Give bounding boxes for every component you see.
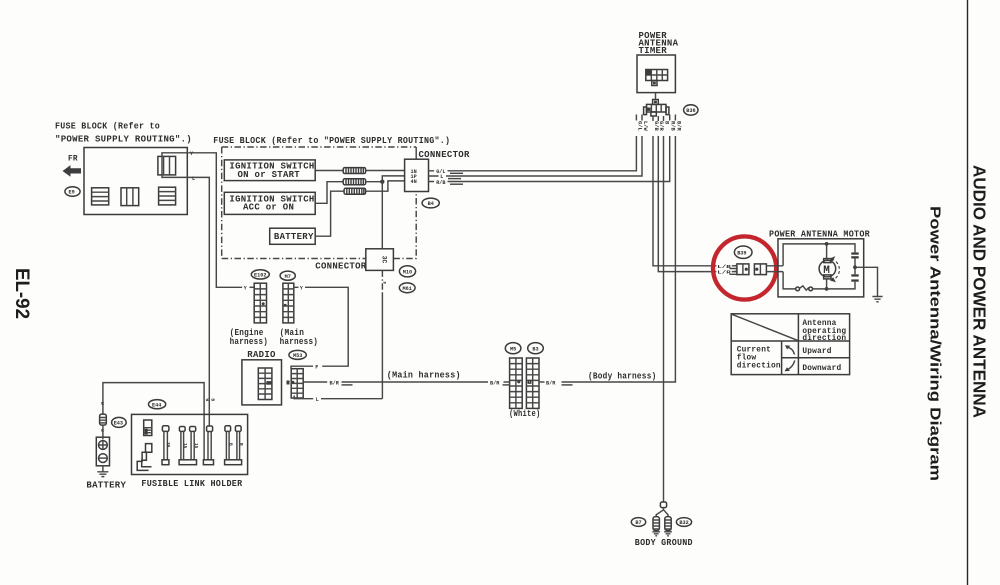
fuse block outline [84, 148, 187, 215]
wire between capacitors [854, 259, 856, 275]
motor harness connector B [754, 264, 766, 275]
fusible link holder box [132, 414, 248, 474]
svg-text:ON or START: ON or START [238, 170, 301, 180]
bracket around fuse F-d [162, 153, 190, 178]
fusible link 4a [225, 426, 233, 460]
ground symbol right [664, 531, 672, 536]
svg-text:L/B: L/B [717, 265, 731, 270]
wire Y from M7 to radio F [294, 287, 348, 366]
svg-text:E9: E9 [69, 190, 75, 196]
table vertical divider right [797, 314, 799, 375]
svg-text:B/R: B/R [330, 380, 340, 386]
timer box [637, 55, 675, 93]
connector oval B4 [422, 198, 439, 208]
FR arrow [63, 165, 82, 177]
connector oval M7 [280, 271, 295, 280]
svg-text:G/R: G/R [658, 121, 664, 131]
svg-text:E102: E102 [254, 273, 266, 279]
junction dot [380, 180, 384, 184]
direction table frame [731, 314, 849, 375]
svg-text:Y: Y [300, 286, 304, 292]
connector strip B3 [526, 358, 539, 408]
wire motor to bottom dot [826, 279, 828, 289]
fusible link A [343, 168, 365, 174]
svg-text:R/B: R/B [670, 121, 676, 131]
svg-text:CONNECTOR: CONNECTOR [315, 262, 366, 272]
svg-text:FUSE BLOCK (Refer to "POWER SU: FUSE BLOCK (Refer to "POWER SUPPLY ROUTI… [213, 136, 450, 146]
svg-text:Y: Y [244, 286, 248, 292]
svg-text:G/L: G/L [636, 121, 642, 131]
svg-text:"POWER SUPPLY ROUTING".): "POWER SUPPLY ROUTING".) [55, 135, 192, 145]
wire battery to fuse link C [315, 191, 344, 236]
svg-text:M53: M53 [293, 353, 302, 359]
table diagonal [732, 314, 798, 340]
svg-text:(Main harness): (Main harness) [387, 371, 461, 381]
ignition switch ON/START box [224, 160, 315, 181]
junction dot top [825, 242, 829, 246]
svg-text:POWER ANTENNA MOTOR: POWER ANTENNA MOTOR [769, 230, 870, 240]
motor harness connector A [735, 264, 749, 275]
radio internal connector strip [258, 368, 272, 400]
svg-text:15: 15 [182, 443, 187, 449]
radio box [242, 360, 282, 405]
svg-text:W: W [99, 402, 104, 405]
fusible link 2 base [179, 460, 196, 465]
wire stub into M5 [504, 381, 510, 383]
wire junction up to connector 1P [382, 176, 404, 182]
svg-text:R: R [238, 443, 243, 446]
stubs connector B to motor box [766, 266, 783, 272]
svg-text:FUSE BLOCK (Refer to: FUSE BLOCK (Refer to [55, 122, 160, 132]
svg-text:L/R: L/R [717, 271, 731, 276]
svg-text:30: 30 [165, 442, 170, 448]
motor circuit top wire [783, 244, 855, 266]
connector oval B32 [676, 518, 691, 527]
connector B4 box [405, 159, 429, 191]
connector oval B3 [528, 343, 544, 354]
svg-text:flow: flow [737, 355, 757, 363]
ground symbol left [652, 531, 660, 536]
motor M [819, 259, 836, 279]
junction dot bottom [825, 287, 829, 291]
wire 3C down to radio L [381, 293, 383, 399]
svg-text:B3: B3 [532, 346, 538, 352]
wire ignition ON to fuse link A [315, 170, 343, 172]
svg-text:G/B: G/B [653, 121, 659, 131]
connector oval E9 [65, 187, 80, 197]
svg-text:M: M [823, 265, 830, 277]
battery symbol [96, 437, 109, 466]
svg-text:R/B: R/B [436, 180, 445, 186]
svg-text:3C: 3C [381, 256, 388, 264]
fusible link 3 [203, 426, 213, 465]
svg-text:L/W: L/W [642, 121, 648, 131]
fuse F-b (striped vertical) [121, 188, 139, 206]
svg-text:4N: 4N [411, 179, 417, 185]
motor outer box [778, 239, 864, 297]
radio external connector strip M53 [291, 369, 303, 398]
fusible link 2a [179, 427, 187, 460]
svg-text:FUSIBLE LINK HOLDER: FUSIBLE LINK HOLDER [141, 479, 242, 489]
connector oval E44 [149, 400, 166, 409]
wire ignition ACC to fuse link B [315, 182, 343, 204]
svg-text:B39: B39 [737, 251, 746, 257]
body ground connector right [665, 517, 671, 531]
svg-text:Downward: Downward [802, 365, 841, 373]
wire battery to ground [102, 466, 104, 472]
wire to ground [855, 267, 878, 296]
wire top dot to motor [826, 244, 828, 259]
wire switch to bottom dot to right [813, 282, 855, 289]
wire B/R from radio to M5 [303, 381, 488, 383]
red highlight circle [713, 236, 776, 299]
dash-dot wire below 3C [381, 270, 383, 293]
table horizontal divider 1 [731, 340, 849, 342]
limit switch circles [796, 287, 800, 291]
connector 3C box [366, 249, 394, 271]
svg-text:direction: direction [737, 363, 781, 371]
ignition switch ACC/ON box [224, 192, 315, 214]
ground symbol at battery [97, 472, 108, 477]
wire connector to battery [102, 425, 104, 437]
connector strip M7 [283, 283, 294, 323]
svg-text:E43: E43 [114, 421, 123, 427]
svg-text:direction: direction [802, 335, 846, 343]
timer connector body [644, 104, 669, 116]
svg-text:B/R: B/R [490, 380, 500, 386]
svg-text:ACC or ON: ACC or ON [243, 203, 294, 213]
battery wire connector symbol [100, 414, 107, 425]
wire R/B from B4 to timer pin6 [429, 136, 670, 182]
svg-text:Current: Current [737, 347, 771, 355]
connector oval M53 [289, 350, 306, 359]
svg-text:BATTERY: BATTERY [86, 480, 126, 490]
wire pin4 to motor connector lower [658, 136, 716, 272]
wire battery to fusible link holder [103, 383, 204, 460]
body ground split wires [656, 508, 668, 517]
fusible link B [343, 179, 365, 185]
svg-text:Power Antenna/Wiring Diagram: Power Antenna/Wiring Diagram [927, 206, 943, 481]
svg-text:RADIO: RADIO [247, 350, 276, 360]
wire pin3 to motor connector upper [653, 136, 716, 266]
svg-text:(Body harness): (Body harness) [588, 372, 657, 382]
svg-text:15: 15 [193, 443, 198, 449]
svg-text:B32: B32 [679, 520, 688, 526]
dash-dot boundary box bottom [222, 258, 366, 260]
upward current arrow [787, 347, 795, 354]
wire G/L from B4 to timer pin1 [429, 136, 637, 171]
dash-dot boundary box top [222, 146, 417, 148]
body ground connector left [653, 517, 659, 531]
solid stub from boundary top into connector B4 [415, 147, 417, 159]
svg-text:M5: M5 [510, 346, 516, 352]
wire break tick R/B [450, 183, 463, 185]
fuse F-d top-right (striped vertical) [158, 156, 176, 175]
connector oval E102 [251, 270, 269, 279]
capacitor plates upper [851, 252, 858, 254]
svg-text:L: L [316, 397, 319, 403]
wire fuse link C to connector 4N [366, 181, 405, 191]
rotation arrow arc [832, 259, 840, 279]
dash-dot boundary box bottom-right to B4 [393, 192, 416, 259]
wire L from B4 to timer pin2 [429, 136, 643, 176]
svg-text:Antenna: Antenna [802, 320, 836, 328]
stub timer box to connector [655, 93, 657, 100]
wire fuse link A to connector 1N [366, 170, 405, 172]
svg-text:AUDIO AND POWER ANTENNA: AUDIO AND POWER ANTENNA [970, 165, 990, 418]
wire L from radio connector [294, 396, 382, 399]
wire fuse link B to junction [366, 181, 383, 183]
connector oval M61 [399, 283, 415, 293]
timer pin stubs down [636, 115, 675, 122]
holder stepped bracket [137, 444, 152, 471]
svg-text:F: F [381, 282, 386, 285]
wire Y from fuse block to E102 vertical [189, 153, 242, 287]
wire pin7 to B3 connector B/R [562, 136, 676, 382]
fuse F-a (striped horizontal) [92, 188, 109, 205]
table horizontal divider 2 [782, 357, 850, 359]
limit switch blade [800, 286, 809, 290]
svg-text:harness): harness) [280, 337, 319, 347]
svg-text:BODY GROUND: BODY GROUND [635, 538, 693, 548]
stubs labels to connector A [732, 266, 737, 272]
svg-text:M10: M10 [403, 270, 412, 276]
fusible link 2b [190, 427, 198, 460]
wire F tail into radio connector [291, 366, 313, 369]
body ground wire connector [660, 502, 666, 508]
table vertical divider left [781, 341, 783, 375]
svg-text:Upward: Upward [802, 348, 831, 356]
junction dot right [853, 265, 857, 269]
wire break tick at B3 [562, 384, 573, 386]
connector oval B39 [734, 246, 752, 258]
connector oval M5 [505, 343, 521, 354]
svg-text:B/R: B/R [675, 121, 681, 131]
svg-text:B/R: B/R [546, 380, 556, 386]
svg-text:M7: M7 [285, 274, 291, 280]
motor circuit bottom-left wire [783, 272, 796, 289]
connector strip E102 [254, 283, 266, 323]
ground symbol at motor [872, 297, 882, 302]
wire Y tail into E102 [250, 286, 255, 288]
downward current arrow [787, 361, 795, 371]
svg-text:W: W [204, 399, 209, 402]
capacitor plates lower [851, 274, 858, 276]
connector oval E43 [112, 417, 127, 427]
wire break tick L [448, 178, 461, 180]
svg-text:B: B [209, 399, 214, 402]
svg-text:L: L [192, 176, 195, 182]
holder small connector [144, 420, 152, 436]
fuse F-c (striped horizontal) [159, 187, 176, 205]
tiny pin marker left of M53 strip [287, 381, 290, 385]
svg-text:B4: B4 [428, 201, 434, 207]
wire pin5 to body ground [663, 136, 665, 502]
wire junction down to connector 3C [381, 182, 383, 249]
svg-text:B: B [228, 443, 233, 446]
fusible link 4 base [225, 460, 242, 465]
connector oval B36 [684, 105, 698, 115]
wire stub out of B3 [539, 381, 545, 383]
fusible link C [344, 188, 366, 194]
battery feed box [270, 228, 316, 244]
connector oval B7 [631, 518, 645, 527]
wire break ticks at connector A [730, 269, 737, 275]
fusible link 4b [235, 426, 243, 460]
svg-text:FR: FR [68, 156, 78, 164]
wire break tick at M5 [503, 384, 510, 386]
wire break tick at radio B/R [342, 384, 353, 386]
connector oval M10 [399, 266, 415, 277]
timer connector top square [653, 100, 659, 105]
connector strip M5 [510, 358, 523, 408]
timer internal connector grid [646, 70, 668, 86]
fusible link 1 [162, 426, 170, 465]
wire break tick G/L [450, 172, 463, 174]
svg-text:(White): (White) [509, 409, 541, 419]
dash-dot boundary box left [221, 147, 223, 259]
svg-text:harness): harness) [230, 337, 269, 347]
svg-text:E44: E44 [152, 402, 161, 408]
svg-text:M61: M61 [403, 286, 412, 292]
svg-text:BATTERY: BATTERY [274, 232, 314, 242]
wire L from fuse block down to fusible link [190, 177, 210, 426]
svg-text:F: F [315, 365, 318, 371]
sidebar rule [967, 0, 969, 585]
svg-text:EL-92: EL-92 [11, 268, 32, 319]
svg-text:B7: B7 [635, 520, 641, 526]
svg-text:B36: B36 [686, 108, 695, 114]
